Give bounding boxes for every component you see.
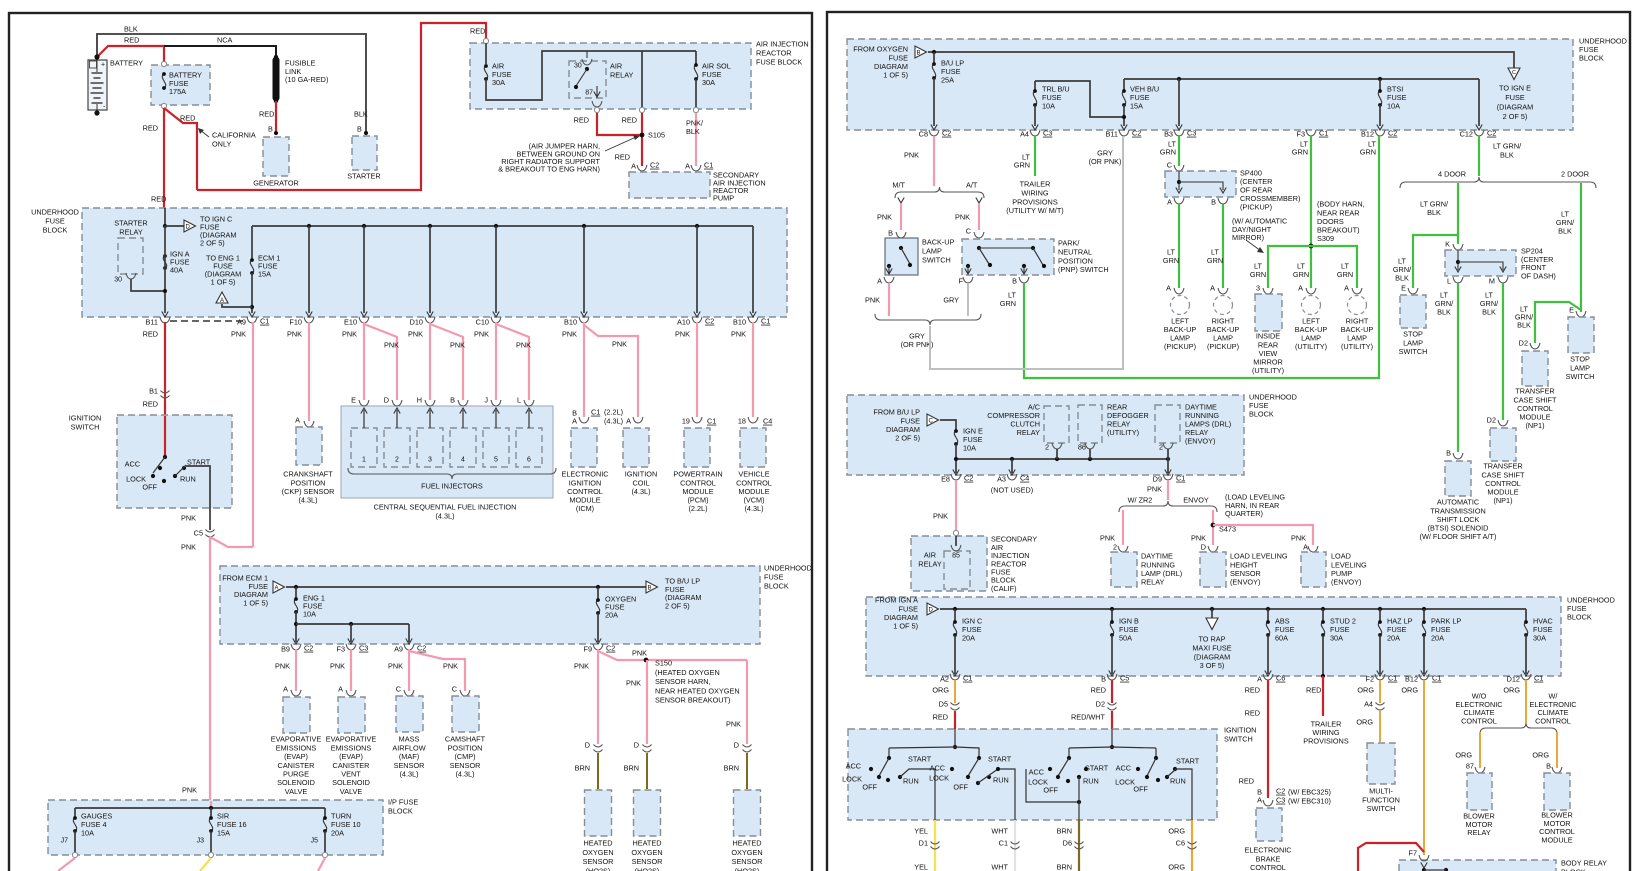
svg-text:A: A xyxy=(338,685,343,694)
svg-text:B3: B3 xyxy=(1164,130,1173,139)
wire RED long run to air injection fuse block xyxy=(197,23,486,190)
svg-text:B: B xyxy=(1101,675,1106,684)
svg-text:PNK: PNK xyxy=(182,786,197,795)
svg-text:40A: 40A xyxy=(170,266,183,275)
svg-text:RUN: RUN xyxy=(180,475,196,484)
svg-text:I/P FUSE: I/P FUSE xyxy=(388,798,418,807)
svg-text:FUSE: FUSE xyxy=(45,217,65,226)
svg-text:ORG: ORG xyxy=(1356,718,1373,727)
wire PNK C10 to injector J xyxy=(495,322,497,400)
wire RED B to D2 xyxy=(1111,680,1113,703)
exit E10 xyxy=(359,317,369,323)
fuse VEH B/U 15A xyxy=(1123,79,1125,90)
svg-text:GENERATOR: GENERATOR xyxy=(253,179,299,188)
svg-text:VENT: VENT xyxy=(341,770,361,779)
exit F9 C2 xyxy=(593,644,603,650)
splice pack SP400 xyxy=(1165,171,1236,197)
daytime running lamps (DRL) relay (envoy) xyxy=(1155,405,1180,443)
svg-text:VALVE: VALVE xyxy=(285,787,308,796)
svg-text:(CMP): (CMP) xyxy=(454,752,475,761)
air injection reactor fuse block xyxy=(470,43,751,109)
wire PNK F3 to EVAP vent xyxy=(350,649,352,691)
svg-text:L: L xyxy=(1447,277,1451,286)
wire ORG F2 to A4 xyxy=(1379,680,1381,703)
svg-text:NEUTRAL: NEUTRAL xyxy=(1058,248,1092,257)
wire LT GRN S309 right branch xyxy=(1311,246,1357,288)
svg-text:85: 85 xyxy=(952,553,960,560)
svg-text:GRN: GRN xyxy=(1000,299,1016,308)
svg-text:(4.3L): (4.3L) xyxy=(455,770,474,779)
svg-text:PNK: PNK xyxy=(731,330,746,339)
svg-text:ACC: ACC xyxy=(930,764,945,773)
svg-text:FUSE: FUSE xyxy=(764,573,784,582)
svg-text:RED: RED xyxy=(1245,709,1260,718)
wire PNK E8 to air relay calif xyxy=(955,480,957,530)
svg-text:BLOCK: BLOCK xyxy=(1561,867,1586,871)
svg-text:PNK: PNK xyxy=(1100,534,1115,543)
svg-text:EMISSIONS: EMISSIONS xyxy=(276,743,317,752)
svg-text:C: C xyxy=(1167,161,1172,170)
bus verticals to exits xyxy=(307,224,311,228)
svg-text:10A: 10A xyxy=(1042,102,1055,111)
svg-text:ACC: ACC xyxy=(1116,764,1131,773)
bus in underhood fuse block xyxy=(252,225,753,227)
fuse SIR 16 15A xyxy=(210,808,212,817)
svg-text:C2: C2 xyxy=(942,129,951,138)
svg-text:REACTOR: REACTOR xyxy=(756,49,792,58)
svg-text:A: A xyxy=(685,162,690,171)
ignition coil (4.3L) xyxy=(623,428,649,467)
wire RED air sol feed through S105 to pump A xyxy=(641,113,643,166)
svg-text:RUN: RUN xyxy=(993,776,1009,785)
svg-text:OFF: OFF xyxy=(1133,785,1148,794)
fuel injector boxes 1-6 xyxy=(351,428,377,467)
svg-text:C1: C1 xyxy=(1388,674,1397,683)
wire PNK below gauges fuse xyxy=(58,858,75,871)
svg-text:IGNITION: IGNITION xyxy=(1224,726,1256,735)
svg-text:PNK: PNK xyxy=(877,213,892,222)
left panel border xyxy=(9,13,812,871)
svg-text:C: C xyxy=(396,685,401,694)
air fuse 30A xyxy=(483,38,488,43)
svg-text:PNK: PNK xyxy=(388,662,403,671)
svg-text:WHT: WHT xyxy=(991,827,1008,836)
svg-text:D5: D5 xyxy=(939,700,948,709)
svg-text:C1: C1 xyxy=(707,417,716,426)
exit A3 C4 not used xyxy=(1007,474,1017,480)
exit A4 C3 xyxy=(1030,130,1040,136)
connector A4 mfs xyxy=(1376,703,1385,706)
svg-text:10A: 10A xyxy=(303,610,316,619)
svg-text:C2: C2 xyxy=(1487,129,1496,138)
svg-text:(PNP) SWITCH: (PNP) SWITCH xyxy=(1058,265,1109,274)
svg-text:SOLENOID: SOLENOID xyxy=(332,778,370,787)
svg-text:(HEATED OXYGEN: (HEATED OXYGEN xyxy=(655,668,720,677)
svg-text:30: 30 xyxy=(114,277,122,284)
wire PNK F10 to CKP sensor xyxy=(308,322,310,421)
svg-text:CANISTER: CANISTER xyxy=(333,761,370,770)
ignition feed 1 xyxy=(954,729,956,747)
exit B12 C2 xyxy=(1375,130,1385,136)
svg-text:SENSOR: SENSOR xyxy=(583,857,614,866)
svg-text:RUN: RUN xyxy=(1083,777,1099,786)
svg-text:PARK/: PARK/ xyxy=(1058,239,1080,248)
wire LT GRN/BLK C12 to door bracket xyxy=(1478,136,1480,176)
svg-text:E10: E10 xyxy=(344,318,357,327)
wire YEL below sir fuse xyxy=(200,858,211,871)
svg-text:B: B xyxy=(268,125,273,134)
svg-text:1 OF 5): 1 OF 5) xyxy=(243,598,268,607)
splice S473 xyxy=(1211,523,1216,528)
svg-text:20A: 20A xyxy=(605,611,618,620)
svg-text:RELAY: RELAY xyxy=(1017,428,1041,437)
svg-text:C: C xyxy=(929,419,934,425)
svg-text:D: D xyxy=(585,741,590,750)
fuse IGN B 50A xyxy=(1110,607,1114,611)
svg-text:A: A xyxy=(1210,284,1215,293)
svg-text:H: H xyxy=(417,396,422,405)
wire PNK D9 to ZR2/ENVOY bracket xyxy=(1167,480,1169,500)
svg-text:LOCK: LOCK xyxy=(842,775,862,784)
svg-text:STARTER: STARTER xyxy=(114,219,147,228)
svg-text:C1: C1 xyxy=(260,317,269,326)
exit ORG C6 xyxy=(1191,820,1193,871)
wire PNK backup switch to bracket xyxy=(888,283,890,316)
wire RED/WHT D2 to ignition switch xyxy=(1111,711,1113,729)
svg-text:E: E xyxy=(1401,284,1406,293)
svg-text:PNK: PNK xyxy=(675,330,690,339)
wire LT GRN to right backup lamp pickup xyxy=(1222,204,1224,288)
svg-text:B10: B10 xyxy=(564,318,577,327)
svg-text:C2: C2 xyxy=(304,644,313,653)
svg-text:C: C xyxy=(966,227,971,236)
svg-text:PURGE: PURGE xyxy=(283,770,309,779)
svg-text:RUN: RUN xyxy=(903,777,919,786)
exit C10 xyxy=(491,317,501,323)
wire PNK C10 branch to injector L xyxy=(496,324,529,400)
wire air relay 87 output xyxy=(592,101,602,107)
svg-text:GRN: GRN xyxy=(1360,148,1376,157)
svg-text:S105: S105 xyxy=(648,131,665,140)
svg-text:RED: RED xyxy=(933,713,948,722)
wire PNK B9 to EVAP purge xyxy=(295,649,297,691)
svg-text:BLK: BLK xyxy=(1482,308,1496,317)
svg-text:(EVAP): (EVAP) xyxy=(339,752,363,761)
svg-text:GRN: GRN xyxy=(1250,270,1266,279)
svg-text:C2: C2 xyxy=(417,644,426,653)
svg-text:BLK: BLK xyxy=(1558,227,1572,236)
svg-text:S150: S150 xyxy=(655,659,672,668)
svg-text:PNK: PNK xyxy=(275,662,290,671)
svg-text:BLOCK: BLOCK xyxy=(764,581,789,590)
svg-text:B: B xyxy=(648,586,652,592)
svg-text:B: B xyxy=(450,396,455,405)
svg-text:A2: A2 xyxy=(940,675,949,684)
wire ORG to blower motor control module xyxy=(1556,732,1558,768)
svg-text:A: A xyxy=(1166,284,1171,293)
fuse IGN A 40A xyxy=(163,256,166,268)
svg-text:RED: RED xyxy=(1239,777,1254,786)
svg-text:C3: C3 xyxy=(1043,129,1052,138)
svg-text:B: B xyxy=(917,51,921,57)
svg-text:PNK: PNK xyxy=(231,330,246,339)
svg-text:J5: J5 xyxy=(311,838,319,845)
svg-text:(10 GA-RED): (10 GA-RED) xyxy=(285,75,328,84)
bracket W/ZR2 ENVOY xyxy=(1119,501,1217,512)
stop lamp switch (4 door) xyxy=(1400,295,1426,328)
svg-text:PNK: PNK xyxy=(865,296,880,305)
svg-text:(4.3L): (4.3L) xyxy=(631,487,650,496)
svg-text:PNK: PNK xyxy=(330,662,345,671)
exit B10 xyxy=(579,317,589,323)
svg-text:(OR PNK): (OR PNK) xyxy=(1089,157,1122,166)
svg-text:F10: F10 xyxy=(289,318,302,327)
svg-text:CANISTER: CANISTER xyxy=(278,761,315,770)
svg-text:WHT: WHT xyxy=(991,863,1008,871)
svg-text:WIRING: WIRING xyxy=(1021,189,1048,198)
wire PNK D10 to injector H xyxy=(429,322,431,400)
wire PNK B10 to ICM xyxy=(583,322,585,417)
svg-text:15A: 15A xyxy=(1130,102,1143,111)
svg-text:RED: RED xyxy=(1306,686,1321,695)
right back-up lamp (pickup) xyxy=(1214,296,1233,315)
svg-text:(4.3L): (4.3L) xyxy=(604,417,623,426)
svg-text:PNK: PNK xyxy=(443,662,458,671)
svg-text:C12: C12 xyxy=(1460,130,1473,139)
mass airflow (MAF) sensor xyxy=(396,696,423,732)
svg-text:POSITION: POSITION xyxy=(448,743,483,752)
svg-text:PNK: PNK xyxy=(955,213,970,222)
svg-text:OFF: OFF xyxy=(862,783,877,792)
svg-text:PNK: PNK xyxy=(1191,534,1206,543)
svg-text:RED: RED xyxy=(622,116,637,125)
svg-text:(CALIF): (CALIF) xyxy=(991,584,1017,593)
svg-text:(W/ EBC325): (W/ EBC325) xyxy=(1288,788,1331,797)
svg-text:START: START xyxy=(908,755,932,764)
blower motor relay xyxy=(1467,773,1492,810)
wire ORG PARK LP to body relay block F7 xyxy=(1423,680,1425,855)
svg-text:RELAY: RELAY xyxy=(1141,578,1165,587)
svg-text:D12: D12 xyxy=(1507,675,1520,684)
svg-text:30A: 30A xyxy=(492,78,505,87)
svg-text:C2: C2 xyxy=(1388,129,1397,138)
wire PNK F9 to HO2S bank1 sensor1 xyxy=(597,649,599,744)
wire PNK to back-up lamp switch xyxy=(900,204,902,230)
svg-text:4: 4 xyxy=(461,457,465,464)
svg-text:SWITCH: SWITCH xyxy=(1367,804,1396,813)
exit A9 C2 xyxy=(404,644,414,650)
svg-text:BLK: BLK xyxy=(1395,274,1409,283)
svg-text:A/T: A/T xyxy=(966,181,978,190)
underhood fuse block 2 (right) xyxy=(847,395,1244,475)
secondary air injection reactor fuse block (calif) xyxy=(911,536,987,591)
svg-text:(ICM): (ICM) xyxy=(576,504,594,513)
svg-text:MAXI FUSE: MAXI FUSE xyxy=(1192,644,1231,653)
svg-text:RED: RED xyxy=(259,110,274,119)
daytime running lamp (DRL) relay xyxy=(1111,552,1137,587)
drop D9 xyxy=(1167,459,1169,473)
svg-text:(OR PNK): (OR PNK) xyxy=(901,340,934,349)
wire PNK B10 branch to ignition coil xyxy=(584,325,638,417)
svg-text:2 OF 5): 2 OF 5) xyxy=(895,434,920,443)
svg-text:A: A xyxy=(295,416,300,425)
exit B9 C2 xyxy=(291,644,301,650)
svg-text:D: D xyxy=(734,741,739,750)
left back-up lamp (pickup) xyxy=(1171,296,1190,315)
svg-text:PROVISIONS: PROVISIONS xyxy=(1303,736,1349,745)
svg-text:CAMSHAFT: CAMSHAFT xyxy=(445,735,486,744)
svg-text:C1: C1 xyxy=(963,674,972,683)
svg-text:30A: 30A xyxy=(702,78,715,87)
exit B11 C2 xyxy=(1119,130,1129,136)
svg-text:RED: RED xyxy=(143,124,158,133)
svg-text:60A: 60A xyxy=(1275,634,1288,643)
svg-text:GRN: GRN xyxy=(1293,270,1309,279)
wire LT GRN A4 trailer provisions xyxy=(1034,136,1036,176)
svg-text:E8: E8 xyxy=(941,475,950,484)
exit A9 C1 xyxy=(247,317,257,323)
svg-text:30A: 30A xyxy=(1533,634,1546,643)
svg-text:SENSOR BREAKOUT): SENSOR BREAKOUT) xyxy=(655,696,730,705)
svg-text:2: 2 xyxy=(395,457,399,464)
bus 2 right xyxy=(956,458,1168,460)
feed line y79 xyxy=(1124,78,1479,80)
svg-text:(ENVOY): (ENVOY) xyxy=(1185,436,1215,445)
svg-text:(2.2L): (2.2L) xyxy=(688,504,707,513)
svg-text:C2: C2 xyxy=(606,644,615,653)
svg-text:S309: S309 xyxy=(1317,234,1334,243)
svg-text:D2: D2 xyxy=(1487,416,1496,425)
exit F10 xyxy=(304,317,314,323)
wire PNK below turn fuse xyxy=(318,858,325,871)
svg-text:C10: C10 xyxy=(476,318,489,327)
svg-text:RED: RED xyxy=(180,114,195,123)
exit D9 C1 xyxy=(1163,474,1173,480)
exit A C6 xyxy=(1263,674,1273,680)
svg-text:SWITCH: SWITCH xyxy=(922,256,951,265)
svg-text:IGNITION: IGNITION xyxy=(69,414,101,423)
EVAP canister vent solenoid valve xyxy=(338,697,365,733)
svg-text:C3: C3 xyxy=(1187,129,1196,138)
svg-text:A: A xyxy=(220,298,224,304)
svg-text:B12: B12 xyxy=(1361,130,1374,139)
underhood fuse block (left) xyxy=(82,208,787,317)
svg-text:BLK: BLK xyxy=(686,127,700,136)
wire LT GRN/BLK L to BTSI solenoid xyxy=(1457,283,1459,452)
svg-text:PNK: PNK xyxy=(1291,534,1306,543)
underhood fuse block (right top) xyxy=(847,39,1573,130)
fuse ENG 1 10A xyxy=(294,585,298,589)
svg-text:ACC: ACC xyxy=(846,762,861,771)
exit F3 C1 xyxy=(1306,130,1316,136)
svg-text:B11: B11 xyxy=(146,318,158,327)
svg-text:BRN: BRN xyxy=(724,764,739,773)
svg-text:C1: C1 xyxy=(704,161,713,170)
svg-text:A: A xyxy=(1167,198,1172,207)
wire PNK A10 to PCM xyxy=(696,322,698,417)
svg-text:C1: C1 xyxy=(761,317,770,326)
connector D5 xyxy=(951,703,960,706)
svg-text:ORG: ORG xyxy=(1455,751,1472,760)
svg-text:PROVISIONS: PROVISIONS xyxy=(1012,197,1058,206)
svg-text:A: A xyxy=(877,277,882,286)
exit BRN D6 xyxy=(1078,820,1080,871)
svg-text:BRN: BRN xyxy=(1057,863,1072,871)
svg-text:30A: 30A xyxy=(1330,634,1343,643)
svg-text:PNK: PNK xyxy=(612,340,627,349)
drop to B3 exit xyxy=(1177,77,1181,81)
svg-text:D: D xyxy=(186,225,191,231)
svg-text:RELAY: RELAY xyxy=(610,71,634,80)
svg-text:RED: RED xyxy=(151,195,166,204)
svg-text:C2: C2 xyxy=(705,317,714,326)
wire GRY PNP F to bracket xyxy=(967,283,969,316)
svg-text:BLK: BLK xyxy=(1427,208,1441,217)
bracket M/T A/T xyxy=(895,187,984,198)
svg-text:BLK: BLK xyxy=(354,110,368,119)
svg-text:OFF: OFF xyxy=(953,783,968,792)
svg-text:D: D xyxy=(634,741,639,750)
svg-text:CONTROL: CONTROL xyxy=(1535,716,1571,725)
svg-text:4 DOOR: 4 DOOR xyxy=(1438,170,1466,179)
svg-text:(NP1): (NP1) xyxy=(1493,496,1512,505)
svg-text:D: D xyxy=(384,396,389,405)
exit B11 xyxy=(160,317,170,323)
fuel injector connectors E D H B J L xyxy=(359,400,369,406)
svg-text:CALIFORNIA: CALIFORNIA xyxy=(212,131,256,140)
svg-text:CONTROL: CONTROL xyxy=(1250,863,1286,871)
svg-text:TRAILER: TRAILER xyxy=(1020,180,1051,189)
svg-text:POSITION: POSITION xyxy=(1058,256,1093,265)
svg-text:A9: A9 xyxy=(237,318,246,327)
svg-text:SENSOR HARN,: SENSOR HARN, xyxy=(655,677,711,686)
svg-text:E: E xyxy=(351,396,356,405)
svg-text:K: K xyxy=(1445,240,1450,249)
wire PNK S473 to load leveling pump xyxy=(1213,525,1313,545)
triangle C to IGN E fuse xyxy=(1508,68,1520,80)
I/P fuse block xyxy=(48,800,383,855)
svg-text:ACC: ACC xyxy=(1029,768,1044,777)
camshaft position (CMP) sensor xyxy=(452,696,479,732)
svg-text:ENVOY: ENVOY xyxy=(1183,496,1209,505)
svg-text:1 OF 5): 1 OF 5) xyxy=(893,622,918,631)
svg-text:(UTILITY): (UTILITY) xyxy=(1252,366,1284,375)
bus end drop xyxy=(752,226,754,313)
wire PNK E10 to injector E xyxy=(363,322,365,400)
svg-text:PNK: PNK xyxy=(1147,485,1162,494)
blower motor control module xyxy=(1544,773,1570,810)
triangle to RAP maxi fuse xyxy=(1210,607,1214,611)
svg-text:PNK: PNK xyxy=(726,720,741,729)
svg-text:SWITCH: SWITCH xyxy=(1566,372,1595,381)
exit WHT C1 xyxy=(1014,820,1016,871)
svg-text:C4: C4 xyxy=(763,417,772,426)
svg-text:BACK-UP: BACK-UP xyxy=(922,238,955,247)
svg-text:GRN: GRN xyxy=(1160,148,1176,157)
svg-text:SOLENOID: SOLENOID xyxy=(277,778,315,787)
svg-text:25A: 25A xyxy=(941,76,954,85)
wire PNK S150 to HO2S bank1 sensor2 xyxy=(646,660,648,744)
svg-text:PNK: PNK xyxy=(933,512,948,521)
svg-text:(ENVOY): (ENVOY) xyxy=(1331,578,1361,587)
svg-text:D9: D9 xyxy=(1153,475,1162,484)
load leveling height sensor (envoy) xyxy=(1200,552,1226,587)
connector C1 dashed link xyxy=(170,320,247,322)
svg-text:RED: RED xyxy=(470,27,485,36)
svg-text:C1: C1 xyxy=(999,839,1008,848)
svg-text:C: C xyxy=(452,685,457,694)
svg-text:SWITCH: SWITCH xyxy=(1399,347,1428,356)
